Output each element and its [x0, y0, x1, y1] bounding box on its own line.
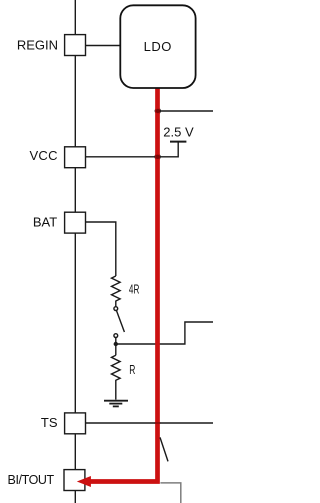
svg-text:BAT: BAT — [33, 214, 57, 229]
node: junction dot VCC line — [154, 154, 160, 160]
pin BI/TOUT — [64, 470, 85, 491]
pin REGIN — [65, 35, 86, 56]
pin BAT — [65, 212, 86, 233]
LDO block U1 — [120, 5, 195, 88]
svg-text:BI/TOUT: BI/TOUT — [8, 473, 55, 487]
svg-text:VCC: VCC — [29, 148, 57, 163]
svg-text:2.5 V: 2.5 V — [163, 125, 194, 140]
wire: TS line seen through red highlight — [155, 422, 161, 424]
wire: red highlighted path LDO to BI/TOUT — [91, 89, 158, 482]
node: dark center of VCC junction over red — [155, 155, 159, 159]
wire: LDO output node to right edge — [158, 110, 214, 112]
svg-text:TS: TS — [41, 415, 58, 430]
red arrowhead into BI/TOUT — [77, 476, 91, 487]
switch S1 arm (open) — [116, 310, 124, 332]
wire: node to right edge (elbow) — [116, 322, 213, 344]
svg-text:REGIN: REGIN — [17, 37, 58, 52]
wire: TS pin to right edge — [86, 422, 214, 424]
switch S2 arm (open, by TS/red wire) — [160, 437, 168, 461]
wire: switch to node — [115, 338, 117, 345]
wire: gray continuation below red bend — [160, 483, 180, 503]
node: junction dot LDO output line — [155, 108, 161, 114]
ground — [104, 401, 128, 407]
svg-text:LDO: LDO — [144, 39, 172, 54]
test point bar 2.5V — [170, 141, 186, 143]
switch S1 lower contact — [114, 334, 118, 338]
wire: REGIN pin to LDO input — [86, 45, 122, 47]
switch S1 upper contact — [114, 307, 118, 311]
wire: BAT pin to 4R resistor — [86, 222, 116, 276]
pin VCC — [65, 147, 86, 168]
wire: IC left-edge vertical bus — [74, 0, 76, 503]
svg-text:4R: 4R — [129, 283, 140, 297]
node: junction dot below switch — [114, 342, 118, 346]
svg-text:R: R — [129, 364, 135, 378]
wire: node to resistor R — [115, 344, 117, 355]
pin TS — [65, 413, 86, 434]
wire: VCC pin to 2.5V test point — [86, 142, 179, 157]
node: dark center of LDO output junction over red — [156, 109, 160, 113]
resistor R — [112, 355, 121, 399]
resistor 4R — [112, 276, 121, 307]
